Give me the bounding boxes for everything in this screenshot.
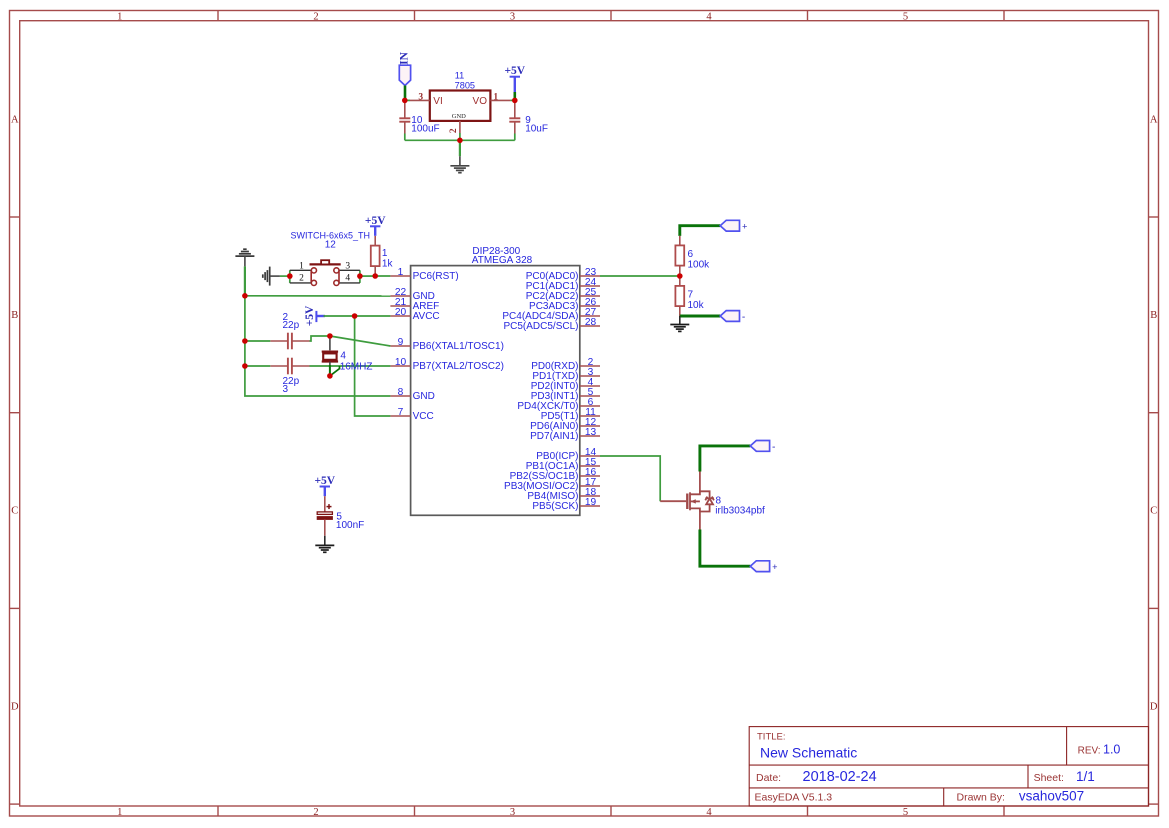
svg-text:10uF: 10uF	[525, 124, 548, 135]
wire	[245, 295, 391, 297]
svg-text:1: 1	[398, 267, 404, 278]
junction	[402, 98, 408, 104]
svg-text:1: 1	[299, 261, 304, 271]
wire	[514, 134, 516, 141]
svg-text:GND: GND	[413, 391, 435, 402]
capacitor C3 22p	[270, 358, 309, 395]
svg-text:B: B	[11, 310, 18, 321]
ground	[450, 156, 469, 173]
svg-text:3: 3	[510, 12, 515, 23]
svg-text:7: 7	[398, 407, 404, 418]
svg-text:10: 10	[395, 357, 407, 368]
wire	[459, 140, 461, 156]
wire	[245, 365, 270, 367]
junction	[357, 273, 363, 279]
svg-text:100uF: 100uF	[411, 124, 439, 135]
ground	[263, 267, 280, 286]
junction	[242, 293, 248, 299]
resistor R6 100k	[675, 236, 710, 276]
svg-text:REV:: REV:	[1078, 746, 1101, 757]
wire	[245, 296, 391, 396]
wire	[355, 316, 391, 416]
svg-text:2018-02-24: 2018-02-24	[803, 769, 877, 785]
svg-text:4: 4	[340, 351, 346, 362]
svg-text:+5V: +5V	[304, 305, 316, 326]
svg-text:19: 19	[585, 497, 597, 508]
svg-text:D: D	[11, 701, 19, 712]
svg-text:PB7(XTAL2/TOSC2): PB7(XTAL2/TOSC2)	[413, 361, 504, 372]
svg-text:C: C	[1150, 506, 1157, 517]
svg-text:1/1: 1/1	[1076, 769, 1095, 784]
svg-text:VO: VO	[473, 96, 488, 107]
svg-text:3: 3	[283, 384, 289, 395]
wire	[700, 530, 750, 567]
svg-text:D: D	[1150, 701, 1158, 712]
port -	[750, 441, 775, 453]
svg-text:7: 7	[688, 289, 694, 300]
wire	[280, 275, 288, 277]
wire	[600, 275, 678, 277]
svg-text:7805: 7805	[455, 81, 475, 91]
svg-text:IN: IN	[398, 51, 410, 64]
wire	[310, 365, 391, 367]
svg-text:irlb3034pbf: irlb3034pbf	[715, 506, 765, 517]
wire	[404, 134, 406, 141]
resistor R1 1k	[371, 236, 394, 276]
capacitor C5 100nF	[317, 496, 364, 536]
wire	[600, 456, 660, 501]
svg-text:Date:: Date:	[756, 772, 781, 784]
svg-text:1k: 1k	[382, 258, 394, 269]
svg-text:PC6(RST): PC6(RST)	[413, 271, 459, 282]
wire	[700, 446, 750, 472]
svg-text:8: 8	[398, 387, 404, 398]
ground	[670, 316, 689, 331]
svg-text:4: 4	[345, 273, 350, 283]
svg-text:100k: 100k	[688, 260, 711, 271]
svg-text:ATMEGA 328: ATMEGA 328	[472, 255, 533, 266]
svg-text:+: +	[742, 222, 747, 232]
transistor Q8 irlb3034pbf	[660, 472, 765, 530]
svg-text:2: 2	[449, 128, 459, 133]
power +5V	[365, 215, 386, 236]
wire	[330, 336, 391, 346]
power +5V	[504, 65, 525, 92]
svg-text:10k: 10k	[688, 300, 705, 311]
junction	[327, 333, 333, 339]
svg-text:PB6(XTAL1/TOSC1): PB6(XTAL1/TOSC1)	[413, 341, 504, 352]
svg-text:-: -	[772, 443, 775, 453]
svg-text:+: +	[772, 563, 777, 573]
wire	[680, 315, 720, 318]
capacitor C10 100uF	[399, 101, 439, 135]
svg-text:+5V: +5V	[365, 215, 386, 227]
svg-text:New Schematic: New Schematic	[760, 745, 857, 761]
svg-text:VCC: VCC	[413, 411, 434, 422]
svg-text:PD7(AIN1): PD7(AIN1)	[530, 431, 578, 442]
port +	[720, 220, 747, 232]
svg-text:5: 5	[903, 12, 908, 23]
wire	[324, 315, 391, 317]
wire	[405, 99, 410, 101]
wire	[245, 340, 270, 342]
svg-text:5: 5	[903, 807, 908, 818]
svg-text:28: 28	[585, 317, 597, 328]
svg-text:3: 3	[418, 92, 423, 102]
title block	[749, 727, 1148, 806]
junction	[512, 98, 518, 104]
capacitor C2 22p	[270, 312, 309, 350]
svg-text:Drawn By:: Drawn By:	[957, 792, 1005, 804]
svg-text:3: 3	[345, 261, 350, 271]
voltage regulator U11 7805	[410, 71, 511, 133]
junction	[327, 373, 333, 379]
svg-text:9: 9	[398, 337, 404, 348]
junction	[242, 338, 248, 344]
junction	[677, 273, 683, 279]
svg-text:1: 1	[117, 12, 122, 23]
ground	[235, 249, 254, 266]
svg-text:20: 20	[395, 307, 407, 318]
svg-text:100nF: 100nF	[336, 520, 364, 531]
switch S12 SWITCH-6x6x5_TH	[290, 230, 370, 285]
svg-text:1: 1	[117, 807, 122, 818]
svg-text:+5V: +5V	[314, 475, 335, 487]
junction	[287, 273, 293, 279]
svg-text:EasyEDA V5.1.3: EasyEDA V5.1.3	[755, 792, 833, 804]
svg-text:11: 11	[455, 71, 465, 81]
svg-text:1.0: 1.0	[1103, 743, 1120, 757]
svg-text:A: A	[1150, 114, 1158, 125]
svg-text:TITLE:: TITLE:	[757, 732, 786, 743]
ground	[315, 536, 334, 553]
port -	[720, 311, 745, 323]
capacitor C9 10uF	[509, 101, 548, 135]
svg-text:2: 2	[313, 12, 318, 23]
svg-text:VI: VI	[433, 96, 442, 107]
crystal Y4 16MHZ	[322, 338, 373, 373]
svg-text:+5V: +5V	[504, 65, 525, 77]
svg-text:2: 2	[299, 273, 304, 283]
junction	[352, 313, 358, 319]
wire	[680, 226, 720, 236]
svg-text:PB5(SCK): PB5(SCK)	[532, 501, 578, 512]
svg-text:2: 2	[313, 807, 318, 818]
wire	[244, 266, 246, 295]
wire	[360, 275, 391, 277]
junction	[242, 363, 248, 369]
svg-text:22p: 22p	[283, 320, 300, 331]
wire	[405, 139, 515, 141]
resistor R7 10k	[675, 276, 704, 316]
svg-text:vsahov507: vsahov507	[1019, 789, 1084, 804]
power +5V (AVCC)	[304, 305, 325, 326]
wire	[459, 133, 461, 140]
svg-text:1: 1	[493, 92, 498, 102]
power +5V	[314, 475, 335, 496]
wire	[513, 92, 516, 100]
svg-text:3: 3	[510, 807, 515, 818]
svg-text:-: -	[742, 313, 745, 323]
svg-text:PC5(ADC5/SCL): PC5(ADC5/SCL)	[503, 321, 578, 332]
svg-text:13: 13	[585, 427, 597, 438]
port IN	[398, 51, 410, 85]
IC U13 ATMEGA 328 DIP28-300	[390, 246, 600, 515]
svg-text:4: 4	[706, 807, 712, 818]
svg-text:AVCC: AVCC	[413, 311, 440, 322]
wire	[310, 336, 330, 341]
wire	[329, 365, 331, 376]
svg-text:16MHZ: 16MHZ	[340, 362, 373, 373]
svg-text:6: 6	[688, 249, 694, 260]
junction	[457, 138, 463, 144]
svg-text:GND: GND	[452, 113, 466, 120]
svg-text:12: 12	[325, 240, 337, 251]
svg-text:Sheet:: Sheet:	[1034, 772, 1064, 784]
port +	[750, 561, 777, 573]
wire	[330, 366, 340, 376]
junction	[372, 273, 378, 279]
svg-text:4: 4	[706, 12, 712, 23]
svg-text:A: A	[11, 114, 19, 125]
wire	[510, 99, 514, 101]
svg-text:C: C	[11, 506, 18, 517]
svg-text:B: B	[1150, 310, 1157, 321]
wire	[404, 86, 407, 101]
